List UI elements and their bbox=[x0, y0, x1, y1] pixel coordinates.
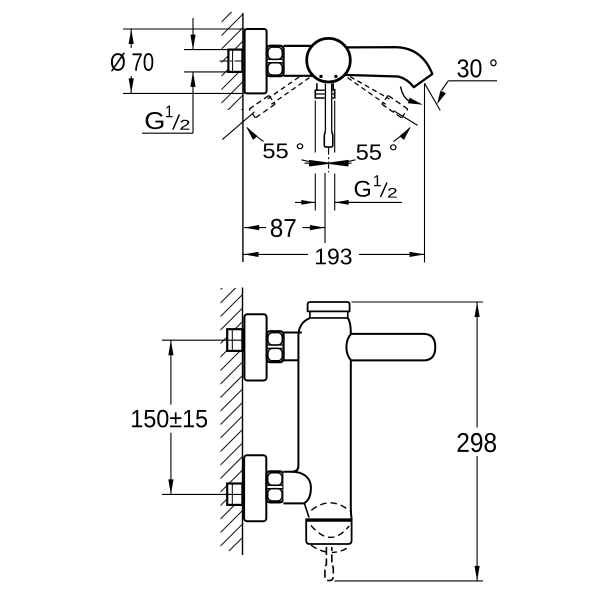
escutcheon (top view) bbox=[245, 29, 267, 93]
55 deg text left bbox=[263, 143, 303, 158]
bottom hex nut bbox=[266, 471, 283, 502]
arc end arrowhead right bbox=[399, 127, 410, 140]
body right edge bbox=[348, 318, 351, 334]
87 ext line bbox=[324, 173, 326, 243]
bottom elbow bonnet bbox=[283, 472, 311, 504]
outlet collar bbox=[306, 519, 351, 544]
193 dimension bbox=[244, 84, 425, 265]
G1/2 label right bbox=[335, 175, 402, 202]
top connection stub bbox=[284, 332, 302, 334]
lever tip bbox=[324, 131, 333, 147]
150 dimension bbox=[132, 340, 242, 494]
G1/2 dim arrows (outlet) bbox=[295, 200, 360, 205]
wall face line (top view) bbox=[242, 13, 244, 262]
top escutcheon bbox=[244, 314, 266, 380]
lever shaft bbox=[325, 84, 333, 132]
298 dimension bbox=[335, 302, 497, 581]
outlet nipple bbox=[325, 547, 333, 581]
body cap bbox=[308, 302, 350, 311]
center bowtie arrows bbox=[309, 160, 334, 167]
bottom escutcheon bbox=[244, 455, 266, 521]
hidden ball dashed arc upper bbox=[311, 503, 350, 511]
87 dimension bbox=[244, 219, 325, 237]
55 deg thin line left bbox=[222, 112, 254, 140]
inlet pipe in wall (top view) bbox=[228, 50, 242, 72]
55 deg text right bbox=[357, 144, 397, 160]
hidden dashed arc lower bbox=[311, 545, 347, 552]
ball bbox=[307, 38, 351, 82]
faucet body (top view) bbox=[284, 46, 314, 76]
swung lever dashed (left) bbox=[249, 77, 309, 118]
wall hatching (bottom view) bbox=[200, 250, 260, 594]
pipe centerline bbox=[220, 60, 242, 62]
ball dots bbox=[319, 75, 322, 78]
pipe inner line bbox=[232, 51, 234, 71]
bottom pipe in wall bbox=[227, 484, 242, 505]
30 deg annotation bbox=[425, 59, 498, 110]
wall hatching (top view) bbox=[200, 0, 260, 165]
top pipe in wall bbox=[227, 329, 242, 351]
lever centerline bbox=[328, 148, 330, 173]
swivel arc arrow bbox=[401, 87, 424, 105]
body left edge bbox=[292, 318, 310, 472]
hex nut (top view) bbox=[267, 46, 284, 76]
hidden ball dashed arc mid bbox=[311, 525, 349, 537]
55 deg thin line right bbox=[394, 111, 418, 126]
outlet cone edge bbox=[305, 504, 310, 518]
wall face line (bottom view) bbox=[242, 288, 244, 556]
55 deg arc left segments bbox=[247, 128, 264, 142]
spout bbox=[344, 47, 432, 87]
swung lever dashed (right) bbox=[348, 77, 408, 118]
G1/2 wall dimension bbox=[142, 18, 228, 133]
arc end arrowhead left bbox=[247, 127, 258, 140]
top hex nut bbox=[267, 331, 284, 362]
diameter 70 dimension bbox=[111, 29, 245, 93]
lever bar bbox=[346, 334, 435, 361]
G1/2 ext lines (outlet) bbox=[315, 101, 334, 211]
neck bbox=[310, 311, 348, 318]
lever collar bbox=[315, 83, 334, 98]
55 deg arc right segments bbox=[394, 128, 411, 142]
